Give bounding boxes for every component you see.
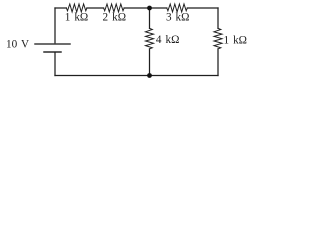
svg-text:3 kΩ: 3 kΩ (166, 12, 190, 24)
svg-text:2 kΩ: 2 kΩ (103, 12, 127, 24)
svg-text:1 kΩ: 1 kΩ (65, 12, 89, 24)
svg-text:4 kΩ: 4 kΩ (156, 34, 180, 46)
svg-text:10 V: 10 V (6, 38, 29, 50)
svg-text:1 kΩ: 1 kΩ (224, 34, 248, 46)
